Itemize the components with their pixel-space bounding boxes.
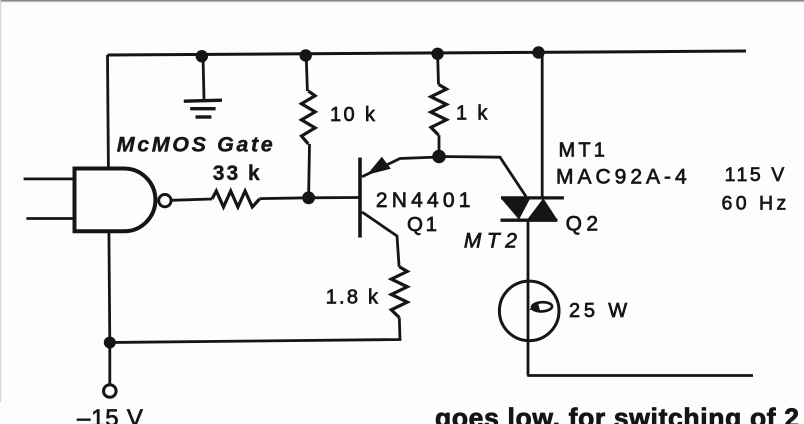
svg-text:1.8 k: 1.8 k [326,287,381,309]
svg-text:25 W: 25 W [569,300,631,322]
svg-text:MT1: MT1 [559,140,609,162]
svg-text:MAC92A-4: MAC92A-4 [556,166,691,189]
svg-text:Q2: Q2 [566,213,603,236]
svg-text:–15 V: –15 V [77,405,144,424]
svg-text:60 Hz: 60 Hz [722,193,790,215]
svg-text:10 k: 10 k [330,104,377,126]
svg-text:115 V: 115 V [725,164,787,186]
svg-text:goes low, for switching of 2: goes low, for switching of 2 [435,403,800,424]
svg-text:McMOS Gate: McMOS Gate [117,133,276,157]
svg-text:Q1: Q1 [407,213,440,236]
svg-text:33 k: 33 k [213,162,262,185]
svg-text:2N4401: 2N4401 [376,189,475,212]
svg-text:1 k: 1 k [456,103,490,125]
svg-text:MT2: MT2 [464,230,523,253]
